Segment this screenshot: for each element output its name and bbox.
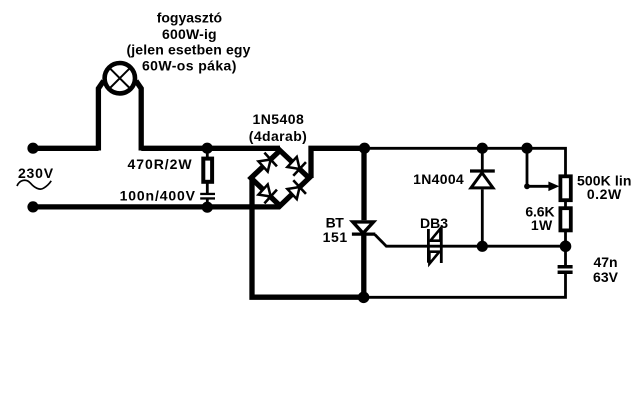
lamp L1 (fogyaszto / load) circle with X <box>105 63 135 93</box>
wire cap top stub <box>564 246 567 265</box>
svg-text:1N4004: 1N4004 <box>413 171 464 187</box>
diac DB3 right bar <box>440 228 443 263</box>
svg-text:(jelen esetben egy: (jelen esetben egy <box>126 41 250 57</box>
svg-text:230V: 230V <box>18 165 54 181</box>
diode 1N4004 triangle <box>471 173 493 188</box>
wire 6.6K bottom <box>564 231 567 246</box>
diode D2 top-right (1N5408) <box>286 155 306 176</box>
diode 1N4004 cathode bar <box>470 169 495 172</box>
svg-text:1N5408: 1N5408 <box>253 111 305 127</box>
resistor 6.6K body <box>560 208 570 230</box>
svg-text:100n/400V: 100n/400V <box>120 188 196 204</box>
node: junction dot 1N4004 bottom <box>477 241 488 252</box>
wire thyristor cathode <box>361 235 366 297</box>
diode D3 bottom-left (1N5408) <box>257 183 277 204</box>
node: junction dot bottom of 100n <box>202 202 213 213</box>
wire diac to junction and 6.6K bottom node <box>441 245 565 248</box>
capacitor 47n plates <box>558 265 573 269</box>
wire 1N4004 cathode stub <box>481 148 484 169</box>
capacitor 100n/400V plates <box>200 193 215 195</box>
wiper arrowhead <box>548 182 559 192</box>
svg-text:1W: 1W <box>531 217 553 233</box>
wire top rail lamp to bridge top vertex <box>141 146 280 151</box>
bridge rectifier diamond wires <box>251 151 309 206</box>
wire top-left rail from terminal to lamp left leg <box>33 146 99 151</box>
diac DB3 lower triangle pointing right <box>429 252 439 264</box>
diode D4 bottom-right (1N5408) <box>286 180 306 201</box>
svg-text:fogyasztó: fogyasztó <box>157 10 222 26</box>
svg-text:(4darab): (4darab) <box>249 128 307 144</box>
wire thyristor anode <box>361 148 366 220</box>
node: junction dot cap top <box>560 241 572 253</box>
svg-text:0.2W: 0.2W <box>587 186 622 202</box>
wire 1N4004 anode stub <box>481 189 484 246</box>
potentiometer 500K body <box>560 176 570 200</box>
wire cap bottom to bottom rail <box>364 274 566 297</box>
wire pot to 6.6K <box>564 200 567 208</box>
diac DB3 upper triangle pointing left <box>430 229 440 241</box>
wire DC plus: bridge right vertex up to top rail <box>311 148 366 178</box>
node: terminal dot bottom left <box>27 201 38 212</box>
wire thin top rail to potentiometer <box>365 148 566 176</box>
svg-text:60W-os páka): 60W-os páka) <box>142 58 237 74</box>
svg-text:600W-ig: 600W-ig <box>162 26 217 42</box>
wire lamp left leg <box>98 81 103 151</box>
node: junction dot thyristor anode rail <box>359 143 370 154</box>
thyristor BT151 cathode bar <box>352 233 375 236</box>
wire gate of BT151 to diac <box>375 235 442 247</box>
svg-text:63V: 63V <box>593 269 619 285</box>
AC tilde symbol <box>17 180 51 189</box>
wire bottom rail from terminal to bridge bottom vertex <box>33 204 280 209</box>
svg-text:47n: 47n <box>593 254 617 270</box>
svg-text:151: 151 <box>323 229 348 245</box>
node: junction dot thyristor cathode rail <box>358 292 370 304</box>
wire lamp right leg <box>136 81 141 151</box>
svg-text:470R/2W: 470R/2W <box>127 156 192 172</box>
svg-text:DB3: DB3 <box>420 215 448 231</box>
node: junction dot wiper tap on top rail <box>521 143 532 154</box>
thyristor BT151 triangle <box>353 222 374 233</box>
resistor 470R/2W body <box>203 159 212 182</box>
diac DB3 left bar <box>427 229 430 263</box>
node: junction dot 1N4004 top <box>477 143 488 154</box>
wire wiper: down then right with arrow <box>527 148 550 186</box>
wire 470R top stub <box>206 148 209 158</box>
diode D1 top-left (1N5408) <box>257 153 277 174</box>
node: small dot at wiper bend <box>524 183 530 189</box>
node: junction dot top of 470R <box>202 143 213 154</box>
wire cap bottom stub <box>206 200 209 207</box>
wire 470R bottom to cap <box>206 182 209 193</box>
node: terminal dot top left <box>27 143 38 154</box>
wire DC minus: bridge left vertex down and along bottom <box>252 178 364 297</box>
